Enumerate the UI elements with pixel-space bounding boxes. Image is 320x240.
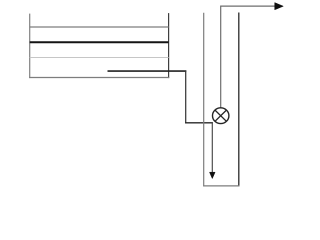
- wire down to arrow: [211, 122, 213, 173]
- tank bottom: [29, 77, 169, 79]
- tank left wall: [29, 14, 31, 79]
- tank level line 1: [30, 26, 169, 28]
- X diagonal 1: [215, 110, 226, 121]
- vessel bottom: [203, 185, 239, 187]
- wire horizontal into vessel: [185, 122, 213, 124]
- lamp/valve circle U1: [213, 108, 229, 124]
- vessel left wall: [203, 13, 205, 187]
- outlet pipe with lamp drop line: [221, 6, 276, 108]
- tank right wall: [168, 13, 170, 78]
- right arrowhead: [275, 3, 284, 10]
- vessel right wall: [238, 13, 240, 187]
- wire tank outlet horizontal: [108, 70, 187, 72]
- wire vertical drop: [185, 70, 187, 123]
- X diagonal 2: [215, 110, 226, 121]
- tank level line 3: [30, 57, 169, 59]
- down arrowhead: [210, 172, 216, 178]
- tank level line 2: [30, 41, 169, 43]
